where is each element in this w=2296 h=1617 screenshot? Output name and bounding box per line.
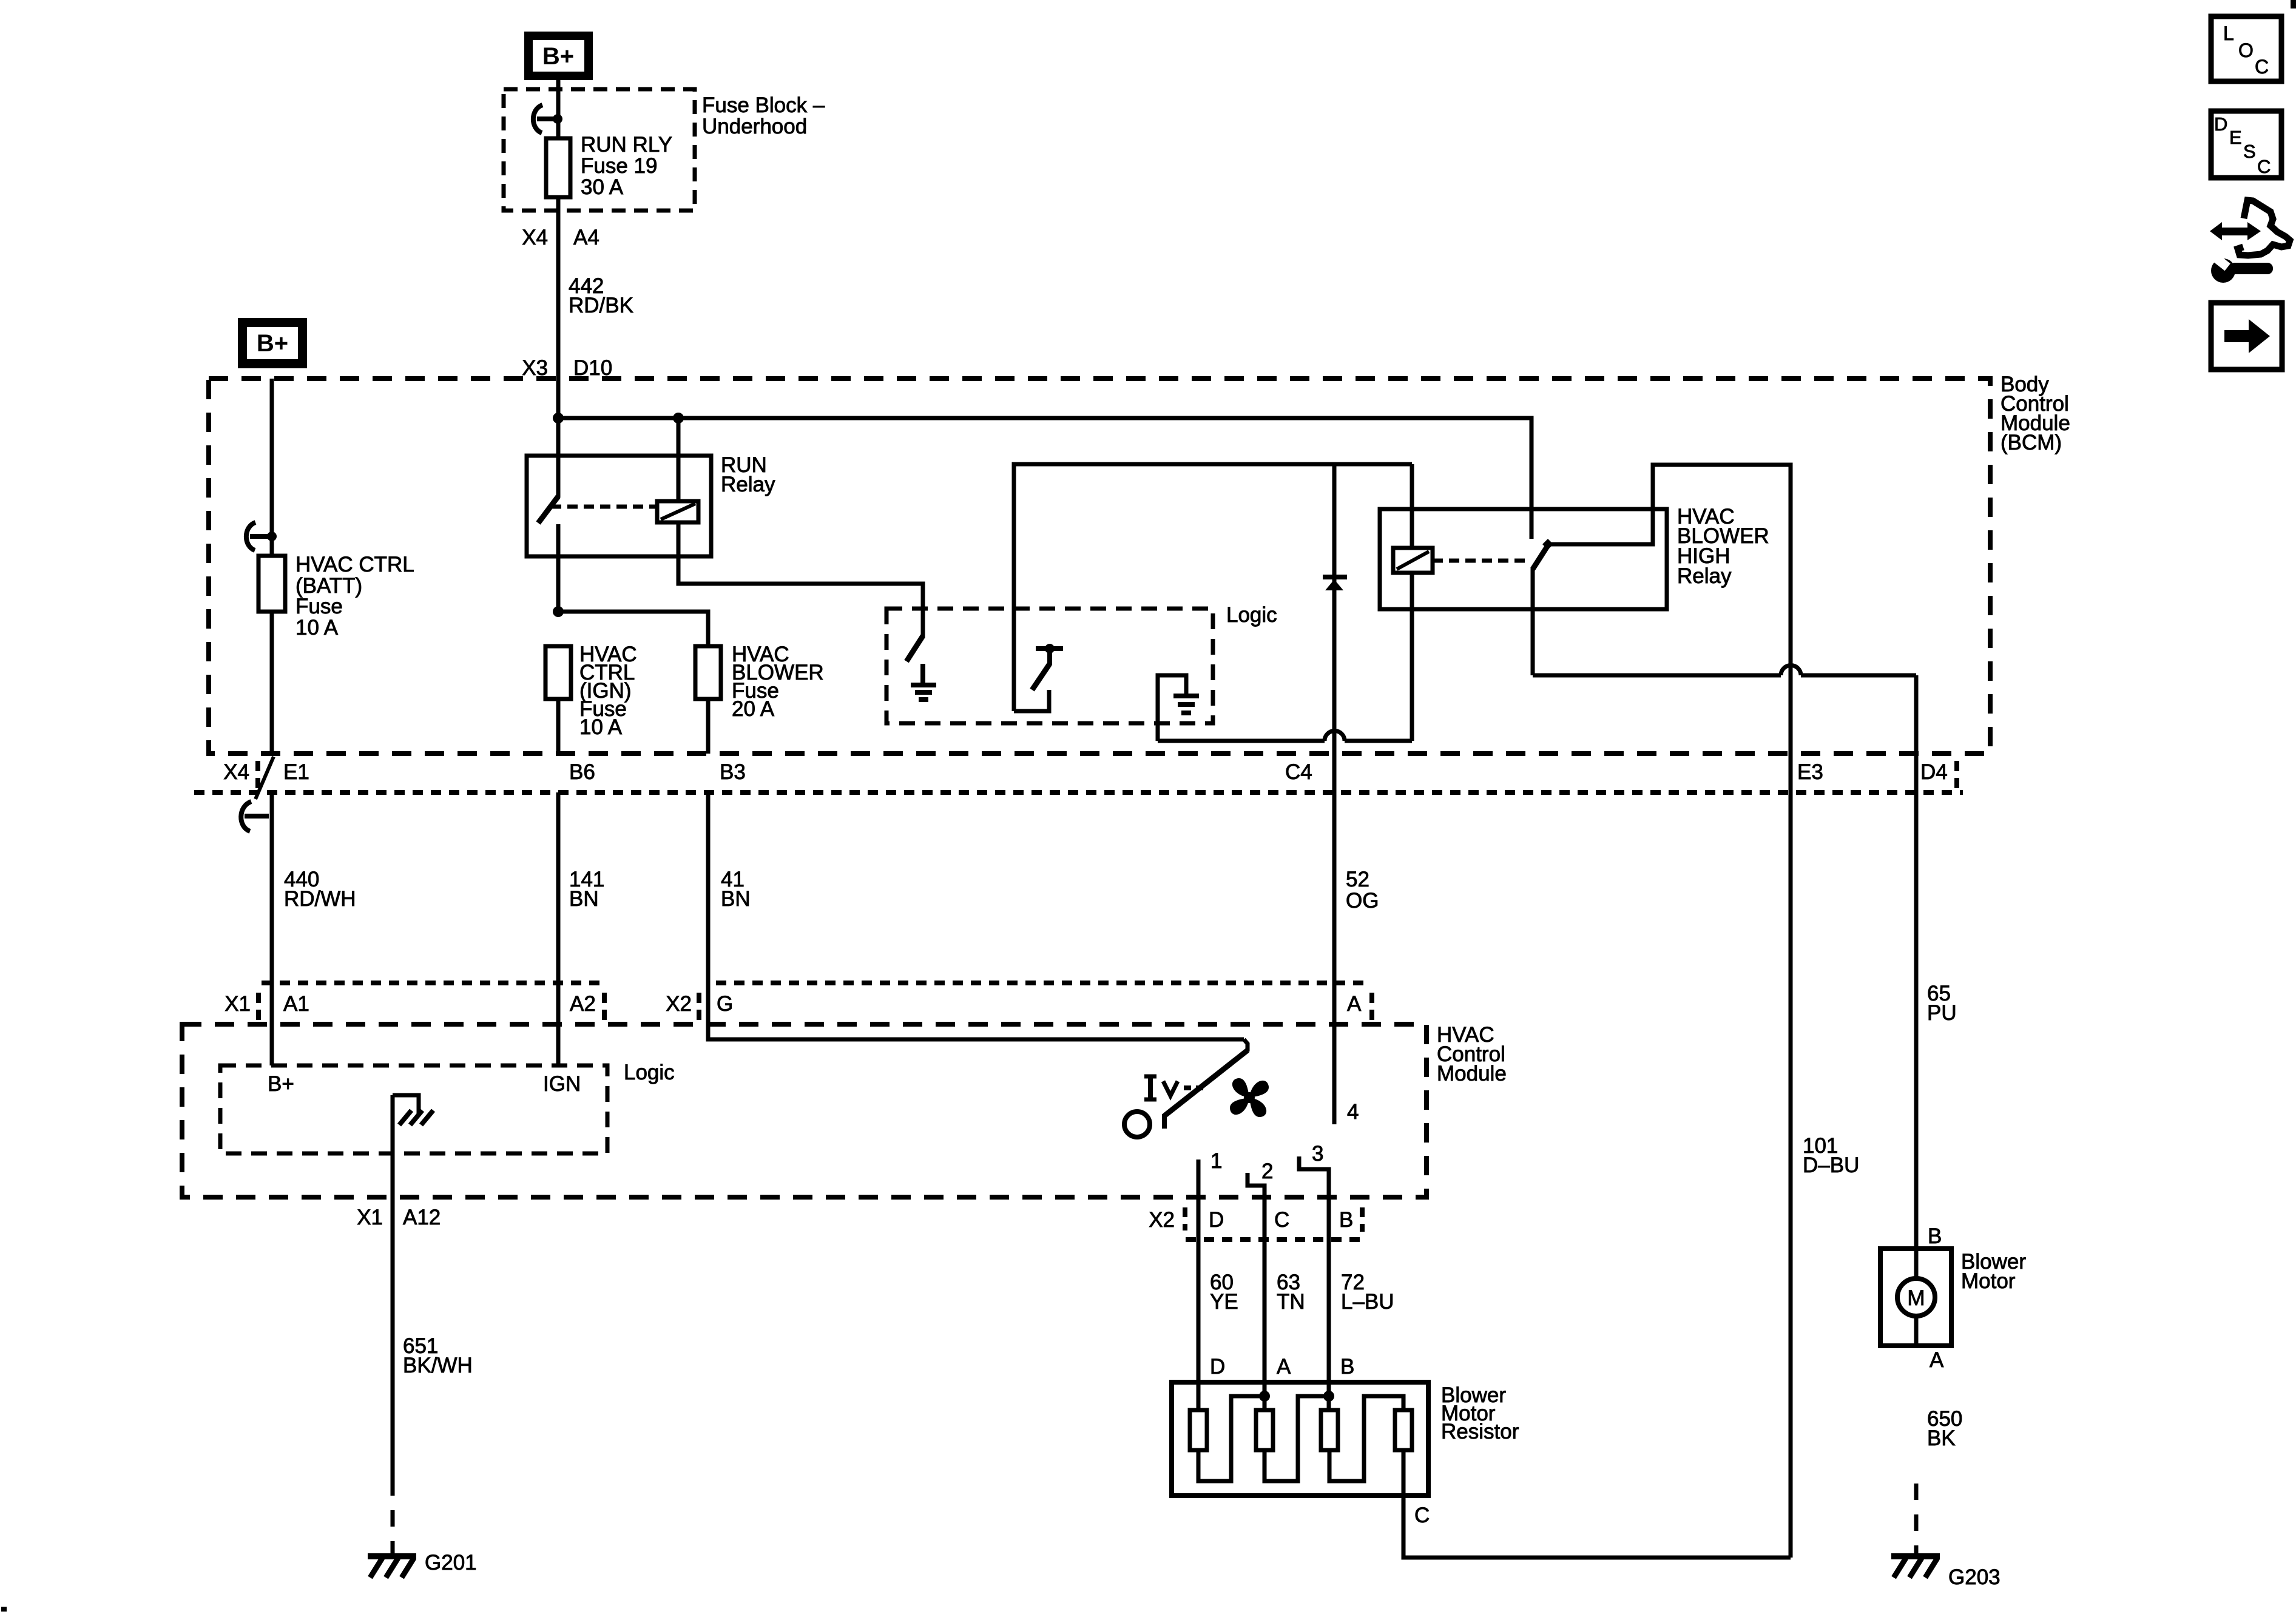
connector X2 bottom dotted line [1186, 1237, 1363, 1242]
svg-text:X2: X2 [666, 992, 692, 1016]
svg-text:RUN RLY: RUN RLY [581, 133, 672, 157]
svg-text:10 A: 10 A [579, 715, 623, 739]
fuse HVAC BLOWER 20 A [695, 646, 721, 699]
svg-text:G203: G203 [1948, 1565, 2001, 1589]
svg-text:A2: A2 [570, 992, 596, 1016]
svg-text:A1: A1 [283, 992, 309, 1016]
Logic dashed box (BCM) [886, 609, 1213, 723]
icon wrench [2207, 249, 2273, 283]
wire logic internal ground branch (circuit 651 head) [393, 1095, 419, 1114]
BCM logic solid box outline [1014, 464, 1412, 711]
svg-text:4: 4 [1347, 1100, 1359, 1124]
svg-text:X1: X1 [357, 1206, 383, 1229]
svg-text:10 A: 10 A [295, 616, 339, 640]
svg-text:B+: B+ [268, 1072, 294, 1096]
colon dash X2 [697, 993, 701, 1021]
svg-text:D–BU: D–BU [1803, 1153, 1859, 1177]
HVAC Control Module dashed box [182, 1024, 1427, 1197]
svg-text:E3: E3 [1797, 760, 1823, 784]
dashed splice to G203 [1914, 1484, 1919, 1555]
svg-text:Relay: Relay [1677, 564, 1732, 588]
svg-text:2: 2 [1261, 1160, 1273, 1183]
svg-text:B+: B+ [542, 43, 574, 70]
BCM logic switch blade (coil ground control) [907, 636, 923, 661]
connector clamp at fuse block input [533, 105, 562, 133]
svg-text:Motor: Motor [1961, 1269, 2016, 1293]
svg-text:1: 1 [1210, 1149, 1222, 1173]
ground (BCM logic, run relay) [911, 664, 936, 700]
Body Control Module (BCM) dashed box [209, 379, 1990, 754]
wire R2 to B node [1264, 1396, 1329, 1481]
svg-text:D: D [2214, 113, 2227, 135]
HVAC high relay switch blade [1533, 539, 1553, 569]
svg-text:A: A [1347, 992, 1362, 1016]
HVAC high relay coil feed (from logic box top edge) [1410, 464, 1414, 548]
run relay coil [657, 501, 698, 522]
svg-text:L: L [2223, 22, 2234, 44]
svg-text:E: E [2229, 127, 2242, 148]
svg-text:B: B [1928, 1224, 1942, 1248]
svg-text:X1: X1 [225, 992, 251, 1016]
wire R3 to R4 [1329, 1396, 1403, 1481]
icon hand with double arrow [2210, 200, 2290, 255]
wire B+ into BCM to HVAC CTRL BATT fuse (circuit 440) [270, 379, 274, 556]
connector slash on E1 wire [255, 757, 274, 799]
svg-text:Fuse 19: Fuse 19 [581, 154, 657, 178]
fan switch blade (HVAC control module) [1164, 1039, 1248, 1129]
svg-text:B6: B6 [569, 760, 595, 784]
svg-text:Underhood: Underhood [702, 115, 807, 138]
svg-text:D: D [1210, 1355, 1225, 1379]
wire blower fuse to B3 [706, 699, 711, 754]
wire logic ground bus to coil low node (with hop over C4 wire) [1158, 731, 1412, 741]
svg-text:IGN: IGN [543, 1072, 581, 1096]
Blower Motor Resistor box [1172, 1382, 1428, 1496]
wire R1 to A node [1198, 1396, 1264, 1481]
fan switch pin 3 wire [1299, 1156, 1329, 1382]
node IGN fuse / blower fuse split [553, 606, 564, 617]
svg-text:G: G [717, 992, 733, 1016]
HVAC high relay coil [1393, 548, 1433, 573]
svg-text:OG: OG [1346, 889, 1379, 913]
page corner mark bottom left [1, 1607, 7, 1612]
svg-text:Module: Module [1437, 1062, 1507, 1085]
connector X1/X2 dotted line [262, 981, 1370, 985]
svg-text:Resistor: Resistor [1441, 1420, 1519, 1443]
svg-text:Relay: Relay [721, 473, 775, 496]
svg-text:M: M [1907, 1286, 1925, 1310]
Logic dashed box (HVAC control module) [220, 1065, 607, 1153]
svg-text:B: B [1339, 1208, 1353, 1232]
HVAC high relay actuator dashed link [1433, 559, 1529, 563]
svg-text:BN: BN [721, 887, 751, 911]
run relay coil feed wire [677, 418, 681, 501]
node B tap [1323, 1391, 1334, 1402]
svg-text:A12: A12 [403, 1206, 441, 1229]
ground (BCM logic internal shelf) [1158, 675, 1199, 741]
svg-text:3: 3 [1312, 1142, 1323, 1166]
colon dash D4 [1954, 761, 1959, 789]
svg-text:30 A: 30 A [581, 175, 624, 199]
wire HVAC CTRL BATT fuse to E1 [270, 612, 274, 754]
fuse HVAC CTRL (BATT) 10 A [258, 556, 285, 612]
HVAC high relay N.O. contact riser to E3 [1550, 465, 1791, 1558]
svg-text:Fuse: Fuse [295, 595, 343, 618]
colon dash after A [1369, 993, 1374, 1021]
wire diode / C4 output (circuit 52) [1332, 465, 1337, 1124]
ground G203 [1891, 1556, 2001, 1589]
fan speed lever symbol [1144, 1076, 1203, 1099]
colon dash X4 [255, 761, 260, 789]
resistor R3 [1321, 1410, 1338, 1450]
svg-text:D4: D4 [1920, 760, 1948, 784]
node at 442/relay feed split [553, 413, 564, 424]
wire B+ to fuse 19 [556, 80, 561, 138]
svg-text:E1: E1 [283, 760, 309, 784]
svg-text:C: C [1414, 1504, 1430, 1527]
wire 651 BK/WH to G201 [391, 1095, 395, 1479]
colon dash after B [1360, 1207, 1365, 1232]
diode (BCM, circuit 52 clamp) [1323, 577, 1347, 590]
fan switch pivot circle [1124, 1112, 1150, 1137]
B+ symbol (BCM batt feed) [238, 318, 307, 368]
svg-text:X4: X4 [223, 760, 249, 784]
svg-text:S: S [2243, 141, 2256, 162]
wire BCM feed bus to HVAC BLOWER HIGH relay switch [558, 418, 1531, 539]
node run relay coil tap [673, 413, 684, 424]
fan switch pin 2 wire [1248, 1173, 1264, 1382]
HVAC high relay switch output to D4 (with hop over E3 wire) [1533, 567, 1916, 1346]
node A tap [1259, 1391, 1270, 1402]
resistor feed D [1197, 1382, 1201, 1410]
svg-text:X4: X4 [522, 226, 548, 249]
svg-text:C4: C4 [1285, 760, 1312, 784]
Fuse Block - Underhood dashed box [504, 89, 695, 211]
svg-text:Logic: Logic [1226, 603, 1277, 627]
RUN Relay box [527, 456, 711, 556]
wire 41 BN (B3 to fan switch) [708, 792, 1244, 1039]
fuse RUN RLY Fuse 19 30 A [546, 138, 570, 197]
connector clamp on E1 wire [241, 802, 269, 831]
svg-text:Fuse Block –: Fuse Block – [702, 93, 825, 117]
svg-text:PU: PU [1927, 1001, 1957, 1025]
resistor R2 [1256, 1410, 1273, 1450]
colon dash X1 [256, 993, 261, 1021]
run relay switch feed [556, 418, 561, 498]
BCM logic switch lower contact [1014, 690, 1049, 711]
svg-text:RD/WH: RD/WH [284, 887, 356, 911]
svg-text:X2: X2 [1149, 1208, 1175, 1232]
svg-text:C: C [2255, 56, 2269, 78]
wire coil low side to logic ground bus [1410, 573, 1414, 741]
resistor feed A [1263, 1382, 1267, 1410]
svg-text:O: O [2238, 39, 2254, 61]
svg-text:D: D [1209, 1208, 1224, 1232]
svg-text:G201: G201 [425, 1551, 477, 1575]
dashed splice to G201 [391, 1479, 395, 1555]
Blower Motor box [1880, 1249, 1951, 1346]
svg-text:TN: TN [1277, 1290, 1305, 1314]
svg-text:L–BU: L–BU [1341, 1290, 1394, 1314]
run relay switch output contact [556, 524, 561, 612]
resistor feed B [1327, 1382, 1331, 1410]
wire IGN fuse to B6 [556, 699, 561, 754]
svg-text:RD/BK: RD/BK [569, 294, 633, 317]
svg-text:A: A [1277, 1355, 1291, 1379]
svg-text:Logic: Logic [624, 1061, 675, 1084]
svg-text:20 A: 20 A [732, 697, 775, 721]
wire 440 RD/WH (E1 to HVAC control module B+) [270, 792, 274, 1065]
svg-text:BN: BN [569, 887, 599, 911]
resistor R1 [1190, 1410, 1207, 1450]
svg-text:A4: A4 [573, 226, 599, 249]
wire run relay coil low side to BCM logic switch [678, 522, 923, 637]
run relay actuator dashed link [551, 505, 657, 509]
svg-text:(BCM): (BCM) [2001, 431, 2062, 454]
svg-text:BK/WH: BK/WH [403, 1354, 473, 1377]
connector clamp on 440 feed [246, 522, 277, 550]
fan icon [1230, 1078, 1269, 1117]
ground G201 [368, 1551, 477, 1578]
colon dash after A2 [602, 993, 607, 1021]
svg-text:B+: B+ [257, 330, 288, 357]
icon LOC box [2211, 16, 2281, 81]
wire run relay output to HVAC BLOWER fuse [558, 612, 708, 646]
connector dotted line below BCM [194, 790, 1963, 795]
fuse HVAC CTRL (IGN) 10 A [545, 646, 571, 699]
svg-text:HVAC CTRL: HVAC CTRL [295, 553, 414, 576]
svg-text:A: A [1930, 1348, 1944, 1372]
wire 141 BN (B6 to HVAC control module IGN) [556, 792, 561, 1065]
chassis ground (HVAC logic) [399, 1110, 433, 1125]
resistor R4 [1395, 1410, 1412, 1450]
icon arrow box [2211, 303, 2282, 370]
svg-text:C: C [1274, 1208, 1289, 1232]
page corner mark top right [2291, 0, 2296, 8]
wire fuse 19 to BCM (circuit 442) [556, 197, 561, 418]
fan switch pin 1 wire [1197, 1160, 1201, 1382]
svg-text:YE: YE [1210, 1290, 1238, 1314]
blower motor M circle [1897, 1278, 1935, 1316]
colon dash X2 bottom [1183, 1207, 1187, 1230]
svg-text:52: 52 [1346, 868, 1369, 891]
svg-text:BK: BK [1927, 1426, 1956, 1450]
icon DESC box [2211, 111, 2281, 178]
svg-text:C: C [2257, 156, 2271, 177]
run relay switch blade [538, 496, 558, 523]
svg-text:B3: B3 [720, 760, 746, 784]
HVAC BLOWER HIGH Relay box [1380, 509, 1667, 609]
B+ symbol (top, fuse block feed) [524, 32, 593, 80]
svg-text:B: B [1340, 1355, 1354, 1379]
BCM logic switch source bar [1032, 644, 1063, 690]
wire resistor common C to 101 riser [1403, 1450, 1791, 1558]
